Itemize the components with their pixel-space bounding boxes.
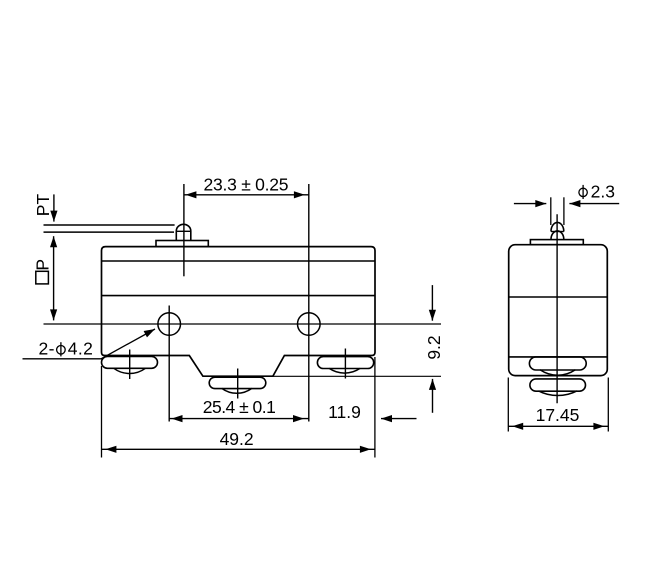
dimension squareP line	[53, 236, 55, 320]
square symbol of squareP	[36, 271, 49, 284]
17.45 extension line left	[507, 378, 509, 432]
terminal lug middle solder arc	[222, 388, 252, 393]
svg-text:49.2: 49.2	[220, 429, 254, 449]
long horizontal line through mounting holes	[44, 323, 442, 325]
side view plunger dome upper	[551, 222, 564, 231]
arrowhead 25.4 left	[172, 415, 183, 422]
svg-text:P: P	[33, 259, 53, 271]
arrowhead 17.45 right	[593, 423, 604, 430]
dimension 11.9 line	[381, 418, 417, 420]
side view body outline	[509, 245, 608, 376]
arrowhead phi2.3 right	[569, 200, 580, 207]
svg-text:23.3 ± 0.25: 23.3 ± 0.25	[204, 175, 289, 195]
arrowhead 11.9 left	[381, 415, 392, 422]
arrowhead PT down	[50, 211, 57, 222]
plunger centerline front	[183, 184, 185, 276]
arrowhead squareP down	[50, 309, 57, 320]
dimension 9.2 upper line	[431, 285, 433, 321]
arrowhead 9.2 up	[429, 379, 436, 390]
svg-text:2-: 2-	[39, 339, 55, 359]
side view mid line	[509, 296, 608, 298]
svg-text:PT: PT	[33, 194, 53, 217]
side view plunger dome lower	[551, 231, 564, 240]
terminal lug left centerline	[129, 350, 131, 380]
arrowhead 49.2 right	[360, 446, 371, 453]
mounting hole right	[298, 313, 321, 336]
dimension 25.4 line	[169, 418, 309, 420]
arrowhead 23.3 right	[294, 191, 305, 198]
left body extension line	[101, 366, 103, 458]
dimension 23.3 line	[184, 194, 309, 196]
bottom reference line extension	[273, 375, 441, 377]
right body extension line	[374, 357, 376, 458]
lever free position line	[44, 224, 175, 226]
dimension 17.45 line	[508, 425, 608, 427]
phi2.3 extension line left	[550, 197, 552, 225]
side view terminal lug upper	[529, 357, 586, 370]
terminal lug right front	[317, 357, 373, 369]
leader line for 2-phi4.2	[23, 329, 156, 359]
side view lower line	[509, 356, 608, 358]
phi2.3 arrow line left	[514, 203, 546, 205]
dimension 9.2 lower line	[432, 379, 434, 413]
plunger dome chord front	[176, 230, 191, 232]
front body upper section line	[102, 260, 376, 262]
svg-text:9.2: 9.2	[424, 335, 444, 359]
side view terminal lug lower	[530, 379, 586, 391]
arrowhead squareP up	[50, 236, 57, 247]
svg-text:11.9: 11.9	[328, 402, 361, 422]
svg-text:17.45: 17.45	[536, 405, 580, 425]
side view plunger base plate	[530, 240, 583, 245]
plunger dome front	[176, 224, 191, 240]
side view centerline	[556, 214, 558, 403]
phi symbol of 4.2	[57, 346, 66, 355]
dimension 49.2 line	[102, 448, 376, 450]
svg-text:4.2: 4.2	[68, 339, 93, 359]
arrowhead 49.2 left	[105, 446, 116, 453]
arrowhead 23.3 left	[185, 191, 196, 198]
side view terminal lug lower arc	[539, 391, 577, 396]
front view switch body outline	[102, 247, 376, 377]
lever operating position line	[44, 231, 175, 233]
arrowhead 25.4 right	[293, 415, 304, 422]
dimension PT line	[53, 194, 55, 221]
phi symbol of 2.3	[579, 188, 587, 196]
arrowhead 17.45 left	[512, 423, 523, 430]
terminal lug right solder arc	[329, 368, 360, 373]
front body middle section line	[102, 295, 376, 297]
svg-text:25.4 ± 0.1: 25.4 ± 0.1	[203, 397, 276, 417]
hole left centerline	[168, 306, 170, 422]
plunger base plate front	[156, 241, 208, 247]
terminal lug left solder arc	[114, 368, 146, 373]
side view terminal lug upper arc	[540, 370, 575, 375]
arrowhead 9.2 down	[429, 310, 436, 321]
hole right centerline / 23.3 extension	[308, 184, 310, 422]
arrowhead phi2.3 left	[535, 200, 546, 207]
terminal lug right centerline	[344, 349, 346, 379]
17.45 extension line right	[607, 378, 609, 432]
phi2.3 extension line right	[563, 197, 565, 225]
svg-text:2.3: 2.3	[591, 181, 615, 201]
terminal lug middle front	[209, 377, 266, 388]
terminal lug left front	[102, 357, 158, 369]
arrowhead leader	[144, 329, 155, 337]
mounting hole left	[158, 313, 181, 336]
phi2.3 arrow line right	[569, 203, 619, 205]
side view plunger dome chord	[551, 231, 564, 233]
terminal lug middle centerline	[237, 369, 239, 399]
